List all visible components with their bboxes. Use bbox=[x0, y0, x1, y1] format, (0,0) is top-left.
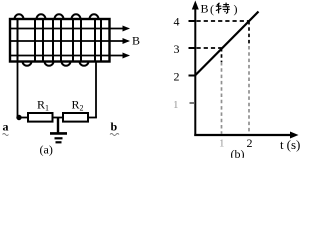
wire R2 to right lead bbox=[88, 117, 97, 119]
wire R1 to R2 bbox=[53, 117, 64, 119]
svg-text:2: 2 bbox=[174, 70, 180, 84]
right lead wire bbox=[95, 62, 97, 118]
resistor R1 bbox=[28, 113, 53, 122]
coil bottom loop arcs bbox=[23, 62, 89, 66]
wavy underline a bbox=[3, 134, 9, 136]
dashed vertical t=2 black part bbox=[248, 21, 250, 46]
left lead wire bbox=[17, 62, 19, 118]
x-axis arrowhead bbox=[290, 132, 299, 139]
junction dot node a side bbox=[16, 115, 21, 120]
svg-text:R1: R1 bbox=[37, 98, 49, 113]
ground symbol bbox=[50, 132, 67, 135]
dashed level-3 guide bbox=[197, 47, 222, 49]
svg-text:1: 1 bbox=[173, 99, 179, 111]
y tick 4 bbox=[189, 20, 196, 22]
coil top loop arcs bbox=[15, 14, 99, 19]
field line 1 with arrow bbox=[11, 28, 124, 30]
wire junction to R1 bbox=[18, 117, 29, 119]
y tick 3 bbox=[189, 47, 196, 49]
svg-text:a: a bbox=[3, 120, 9, 134]
svg-text:2: 2 bbox=[247, 136, 253, 150]
y tick 1 bbox=[190, 102, 196, 104]
y-axis bbox=[194, 7, 196, 136]
svg-text:4: 4 bbox=[174, 15, 180, 29]
svg-text:(: ( bbox=[210, 2, 214, 16]
dashed vertical t=1 grey part bbox=[221, 62, 223, 134]
svg-text:): ) bbox=[234, 2, 238, 16]
coil core rectangle bbox=[10, 19, 110, 62]
B-t graph line bbox=[195, 12, 259, 76]
resistor R2 bbox=[63, 113, 88, 122]
coil winding vertical wires bbox=[18, 19, 102, 62]
svg-text:B: B bbox=[132, 34, 140, 48]
wavy underline b bbox=[110, 134, 119, 136]
x-axis bbox=[194, 134, 292, 136]
y tick 2 bbox=[189, 75, 196, 77]
field line 3 with arrow bbox=[11, 55, 124, 57]
dashed level-4 guide bbox=[197, 20, 250, 22]
svg-text:t(s): t(s) bbox=[280, 137, 300, 152]
dashed vertical t=1 black part bbox=[221, 48, 223, 62]
svg-text:1: 1 bbox=[219, 138, 225, 150]
ground tap wire bbox=[57, 118, 59, 134]
svg-text:(b): (b) bbox=[231, 147, 245, 158]
axis label Chinese tesla glyph bbox=[216, 3, 230, 14]
svg-text:R2: R2 bbox=[72, 98, 84, 113]
svg-text:3: 3 bbox=[174, 42, 180, 56]
dashed vertical t=2 grey part bbox=[248, 46, 250, 134]
svg-text:B: B bbox=[201, 2, 209, 16]
svg-text:(a): (a) bbox=[40, 143, 53, 157]
field line 2 with arrow bbox=[11, 40, 124, 42]
svg-text:b: b bbox=[111, 120, 118, 134]
y-axis arrowhead bbox=[192, 1, 199, 10]
